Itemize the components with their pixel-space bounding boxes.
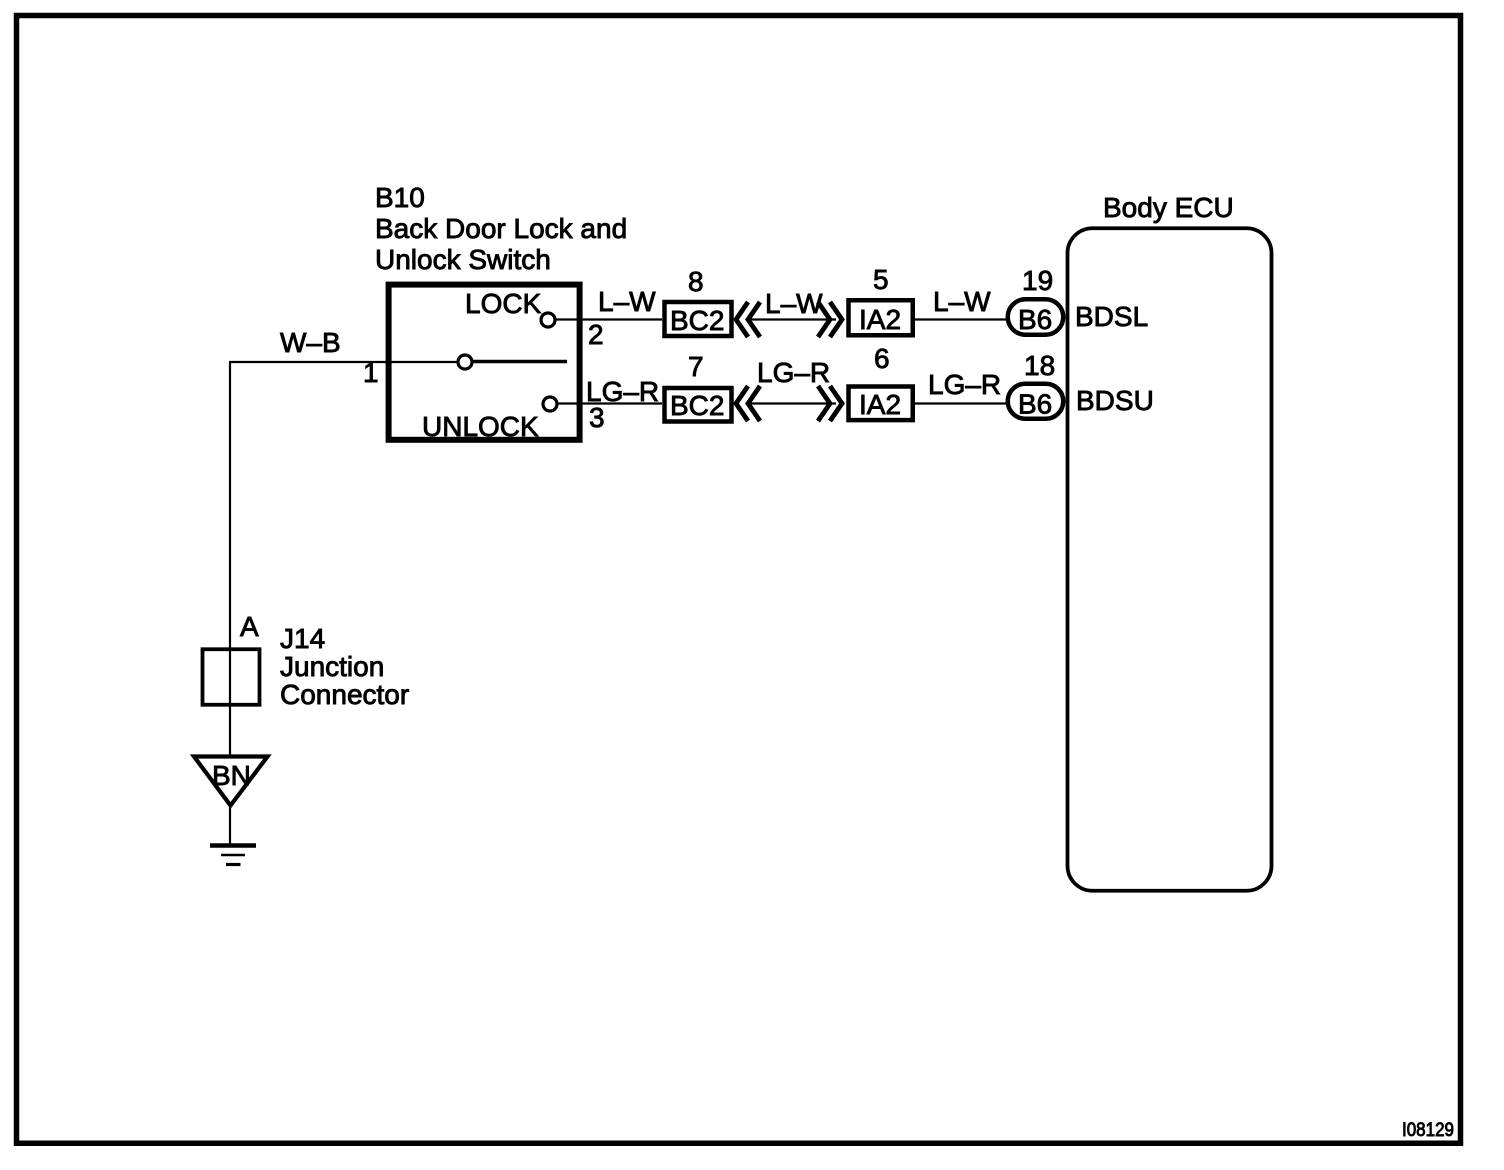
svg-text:7: 7 (688, 351, 704, 382)
svg-text:L–W: L–W (765, 288, 823, 319)
svg-text:BC2: BC2 (670, 390, 724, 421)
svg-text:I08129: I08129 (1402, 1120, 1454, 1141)
svg-text:Connector: Connector (280, 679, 409, 710)
svg-text:J14: J14 (280, 623, 325, 654)
svg-text:Back Door Lock and: Back Door Lock and (375, 213, 627, 244)
svg-text:L–W: L–W (598, 286, 656, 317)
svg-text:19: 19 (1022, 265, 1053, 296)
svg-text:LG–R: LG–R (586, 376, 659, 407)
svg-text:B6: B6 (1018, 304, 1052, 335)
Body ECU box U1 (1068, 228, 1272, 891)
svg-text:5: 5 (873, 264, 889, 295)
wire between connectors row1 (748, 318, 836, 320)
svg-text:LG–R: LG–R (928, 369, 1001, 400)
connector BC2 pin 7 (665, 388, 732, 422)
connector IA2 pin 5 (849, 300, 913, 335)
svg-text:Unlock Switch: Unlock Switch (375, 244, 551, 275)
LOCK contact (541, 313, 555, 327)
ground symbol (210, 846, 256, 865)
inline connector chevrons row1 right (818, 302, 842, 337)
junction connector J14 (203, 649, 260, 705)
svg-text:BDSL: BDSL (1075, 301, 1148, 332)
svg-text:IA2: IA2 (859, 389, 901, 420)
svg-text:8: 8 (688, 266, 704, 297)
wire pin1 inside switch (390, 361, 458, 363)
svg-text:A: A (240, 611, 259, 642)
svg-text:2: 2 (588, 319, 604, 350)
wire LOCK to BC2 (555, 318, 662, 320)
ECU connector B6 pin 18 (1008, 384, 1064, 420)
svg-text:Body ECU: Body ECU (1103, 192, 1234, 223)
svg-text:UNLOCK: UNLOCK (422, 411, 539, 442)
svg-text:BDSU: BDSU (1076, 385, 1154, 416)
ground triangle BN (194, 757, 268, 806)
switch B10 box (389, 285, 580, 440)
svg-text:B10: B10 (375, 182, 425, 213)
UNLOCK contact (543, 397, 557, 411)
svg-text:BC2: BC2 (670, 305, 724, 336)
switch arm (473, 360, 567, 364)
wire W-B horizontal (229, 361, 387, 363)
inline connector chevrons row1 left (736, 302, 760, 337)
wire IA2 to B6 row2 (915, 402, 1006, 404)
svg-text:LG–R: LG–R (757, 357, 830, 388)
inline connector chevrons row2 left (736, 386, 760, 421)
wire IA2 to B6 row1 (915, 318, 1006, 320)
connector IA2 pin 6 (849, 387, 913, 421)
svg-text:Junction: Junction (280, 651, 384, 682)
J14 text (280, 623, 409, 710)
svg-text:1: 1 (363, 357, 379, 388)
svg-text:L–W: L–W (933, 286, 991, 317)
svg-text:BN: BN (212, 760, 251, 791)
svg-text:W–B: W–B (280, 327, 341, 358)
connector BC2 pin 8 (665, 302, 732, 336)
switch B10 title text (375, 182, 627, 275)
ECU connector B6 pin 19 (1008, 299, 1064, 335)
svg-text:IA2: IA2 (859, 304, 901, 335)
svg-text:6: 6 (874, 343, 890, 374)
svg-text:LOCK: LOCK (465, 288, 542, 319)
inline connector chevrons row2 right (818, 386, 842, 421)
wire UNLOCK to BC2 (557, 402, 662, 404)
wire vertical to ground (229, 362, 231, 844)
svg-text:B6: B6 (1018, 389, 1052, 420)
wire between connectors row2 (748, 402, 836, 404)
switch pivot contact (458, 355, 472, 369)
svg-text:18: 18 (1024, 350, 1055, 381)
